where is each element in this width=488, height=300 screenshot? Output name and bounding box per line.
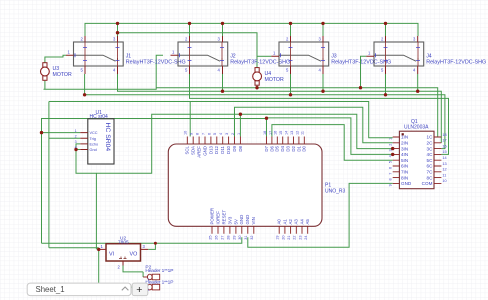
wire: J1 pin3 drop with branch to motor U4 top xyxy=(118,23,258,67)
svg-text:11: 11 xyxy=(442,173,446,177)
svg-text:RESET: RESET xyxy=(221,210,226,225)
svg-text:18: 18 xyxy=(442,133,446,137)
svg-text:IOREF: IOREF xyxy=(215,211,220,225)
svg-text:5: 5 xyxy=(389,161,393,163)
svg-text:5V: 5V xyxy=(233,219,238,224)
ultrasonic sensor U1 HC-SR04 xyxy=(80,110,114,164)
svg-text:28: 28 xyxy=(226,236,230,240)
svg-text:D13: D13 xyxy=(208,145,213,154)
node: rail J2p3 xyxy=(221,22,224,25)
node: B3 J4p5 xyxy=(384,93,387,96)
svg-text:D12: D12 xyxy=(214,145,219,154)
header P2 xyxy=(143,264,173,282)
svg-text:14: 14 xyxy=(285,131,289,135)
wire: Arduino D7 to ULN 4IN xyxy=(267,118,393,154)
svg-text:4: 4 xyxy=(75,146,77,150)
svg-text:27: 27 xyxy=(220,236,224,240)
svg-text:26: 26 xyxy=(214,236,218,240)
svg-text:1: 1 xyxy=(75,129,77,133)
svg-text:17: 17 xyxy=(442,139,446,143)
svg-text:Header 1**1P: Header 1**1P xyxy=(145,280,173,286)
svg-text:A0: A0 xyxy=(277,219,282,225)
svg-text:3: 3 xyxy=(75,140,77,144)
svg-text:A3: A3 xyxy=(294,219,299,225)
svg-text:32: 32 xyxy=(250,236,254,240)
node: J4 pin1 bus xyxy=(359,86,362,89)
svg-text:14: 14 xyxy=(442,156,446,160)
header P3 xyxy=(143,280,173,292)
svg-text:13: 13 xyxy=(290,131,294,135)
svg-text:15: 15 xyxy=(442,150,446,154)
wire: HC-SR04 VCC tap xyxy=(42,132,81,134)
svg-text:4: 4 xyxy=(219,133,223,135)
regulator U2 7805 xyxy=(99,236,149,270)
wire: J3 pin1 tap xyxy=(257,55,271,57)
svg-text:3IN: 3IN xyxy=(401,146,408,151)
svg-text:12: 12 xyxy=(442,168,446,172)
svg-text:12: 12 xyxy=(295,131,299,135)
Arduino top pin stubs xyxy=(187,137,304,145)
node: rail J4p2 xyxy=(384,22,387,25)
svg-text:D9: D9 xyxy=(232,145,237,151)
wire: 7805 pin2 to header P2 xyxy=(123,266,143,278)
svg-text:2C: 2C xyxy=(427,141,434,146)
svg-text:2: 2 xyxy=(389,144,393,146)
svg-text:Gnd: Gnd xyxy=(90,148,97,152)
svg-text:2: 2 xyxy=(231,133,235,135)
svg-text:AREF: AREF xyxy=(197,146,202,158)
motor U4 xyxy=(253,68,284,86)
svg-text:8IN: 8IN xyxy=(401,175,408,180)
svg-text:7: 7 xyxy=(389,173,393,175)
svg-text:30: 30 xyxy=(238,236,242,240)
node: B2 J4p4 xyxy=(416,90,419,93)
svg-text:21: 21 xyxy=(287,236,291,240)
svg-text:22: 22 xyxy=(293,236,297,240)
svg-text:6IN: 6IN xyxy=(401,164,408,169)
wire: J3 pin3 drop xyxy=(322,23,324,36)
node: rail J3p2 xyxy=(289,22,292,25)
node: B2 J3p4 xyxy=(321,90,324,93)
node: B2 J2p4 xyxy=(221,90,224,93)
wire: 5V rail from left riser to Arduino GND pin xyxy=(42,237,242,243)
node: D7 riser xyxy=(265,117,268,120)
wire: bus B4 J2 pin5 to ULN 4C xyxy=(190,74,449,154)
svg-text:A1: A1 xyxy=(282,219,287,225)
wire: left riser net joining D7 xyxy=(42,119,267,244)
Arduino top pin numbers xyxy=(184,131,305,135)
svg-text:D11: D11 xyxy=(220,145,225,153)
svg-text:13: 13 xyxy=(442,162,446,166)
svg-text:RelayHT3F-12VDC-SHG: RelayHT3F-12VDC-SHG xyxy=(230,60,290,66)
node: D8 riser xyxy=(239,113,242,116)
svg-text:8: 8 xyxy=(389,178,393,180)
svg-text:D6: D6 xyxy=(269,145,274,151)
svg-text:D5: D5 xyxy=(275,145,280,151)
svg-text:D3: D3 xyxy=(286,145,291,151)
svg-text:16: 16 xyxy=(274,131,278,135)
svg-text:UNO_R3: UNO_R3 xyxy=(325,189,346,195)
Arduino top pin names xyxy=(185,145,307,157)
node: VCC row xyxy=(40,131,43,134)
svg-text:D4: D4 xyxy=(280,145,285,151)
HC-SR04 pin numbers xyxy=(75,129,77,150)
motor U3 xyxy=(41,63,72,81)
svg-text:COM: COM xyxy=(422,181,433,186)
driver Q1 ULN2003A xyxy=(399,119,434,189)
wire: Arduino D9 to ULN 2IN xyxy=(235,107,393,143)
svg-text:10: 10 xyxy=(442,179,446,183)
svg-text:GND: GND xyxy=(401,181,412,186)
svg-text:2: 2 xyxy=(75,135,77,139)
svg-text:HC sr04: HC sr04 xyxy=(90,114,109,120)
svg-text:VO: VO xyxy=(130,252,138,258)
svg-text:4: 4 xyxy=(389,155,393,157)
wire: J4 pin2 drop xyxy=(385,23,387,36)
node: rail J3p3 xyxy=(321,22,324,25)
svg-text:11: 11 xyxy=(301,131,305,135)
relay J3 xyxy=(271,36,391,74)
svg-text:Sheet_1: Sheet_1 xyxy=(36,285,65,294)
svg-text:VCC: VCC xyxy=(90,131,98,135)
wire: J3 pin2 drop xyxy=(290,23,292,36)
svg-text:1: 1 xyxy=(237,133,241,135)
wire: Arduino GND2 to ULN GND xyxy=(248,183,393,247)
relay J1 xyxy=(66,36,186,74)
svg-text:A2: A2 xyxy=(288,219,293,225)
wire: Trig line to ULN 1IN with SCL branch and 7805 VI leg xyxy=(49,102,393,248)
relay J4 xyxy=(366,36,486,74)
node: rail J1p3 xyxy=(116,22,119,25)
wire: Arduino D6 to ULN 5IN xyxy=(272,125,393,161)
svg-text:6C: 6C xyxy=(427,164,434,169)
svg-text:25: 25 xyxy=(208,236,212,240)
svg-text:D7: D7 xyxy=(264,145,269,151)
ULN2003A pin stubs xyxy=(393,137,442,183)
svg-text:POWER: POWER xyxy=(209,208,214,225)
Arduino bottom pin numbers xyxy=(208,236,308,240)
svg-text:6: 6 xyxy=(207,133,211,135)
svg-text:D1: D1 xyxy=(296,145,301,151)
svg-text:5: 5 xyxy=(213,133,217,135)
node: rail J2p2 xyxy=(188,22,191,25)
ULN2003A pin names xyxy=(401,135,433,186)
svg-text:1IN: 1IN xyxy=(401,135,408,140)
Arduino bottom pin stubs xyxy=(212,226,308,234)
svg-text:17: 17 xyxy=(268,131,272,135)
svg-text:5C: 5C xyxy=(427,158,434,163)
sheet tab bar xyxy=(27,283,148,296)
wire: 7805 VO up to 5V rail xyxy=(148,243,155,249)
svg-text:D10: D10 xyxy=(226,145,231,154)
node: B3 J3p5 xyxy=(289,93,292,96)
svg-text:4IN: 4IN xyxy=(401,152,408,157)
svg-text:GND: GND xyxy=(202,146,207,156)
svg-text:8C: 8C xyxy=(427,175,434,180)
svg-text:D8: D8 xyxy=(238,145,243,151)
wire: HC-SR04 Echo via D8 riser to ULN 3IN xyxy=(76,114,393,249)
svg-text:7: 7 xyxy=(201,133,205,135)
svg-text:4C: 4C xyxy=(427,152,434,157)
node: HC-SR04 Gnd xyxy=(74,148,77,151)
svg-text:10: 10 xyxy=(184,131,188,135)
svg-text:GND: GND xyxy=(245,215,250,225)
svg-text:15: 15 xyxy=(279,131,283,135)
svg-text:19: 19 xyxy=(276,236,280,240)
node: J1p3 branch xyxy=(116,31,119,34)
svg-text:Header 1**1P: Header 1**1P xyxy=(145,268,173,274)
svg-text:3C: 3C xyxy=(427,146,434,151)
node: 7805 VI xyxy=(97,248,100,251)
wire: J2 pin3 drop xyxy=(222,23,224,36)
svg-text:MOTOR: MOTOR xyxy=(265,77,284,83)
Arduino bottom pin names xyxy=(209,208,310,225)
svg-text:A5: A5 xyxy=(305,219,310,225)
svg-text:+: + xyxy=(136,284,142,296)
svg-text:9: 9 xyxy=(190,133,194,135)
wire: J2 pin2 drop xyxy=(189,23,191,36)
svg-text:RelayHT3F-12VDC-SHG: RelayHT3F-12VDC-SHG xyxy=(331,60,391,66)
svg-text:16: 16 xyxy=(442,144,446,148)
wire: bus B3 relay pin5 bus to ULN 3C xyxy=(85,74,445,149)
Arduino P1 UNO_R3 xyxy=(168,144,345,226)
svg-text:18: 18 xyxy=(263,131,267,135)
node: motor U4 bottom xyxy=(255,86,258,89)
svg-text:VI: VI xyxy=(109,252,114,258)
wire: motor U3 top to J1 pin1 xyxy=(45,55,66,63)
svg-text:RelayHT3F-12VDC-SHG: RelayHT3F-12VDC-SHG xyxy=(426,60,486,66)
relay J2 xyxy=(171,36,291,74)
svg-text:7IN: 7IN xyxy=(401,170,408,175)
svg-text:6: 6 xyxy=(389,167,393,169)
wire: bus B2 relay pin4 bus to ULN 2C xyxy=(118,74,442,143)
svg-text:9: 9 xyxy=(389,184,393,186)
wire: motor U3 bottom to J2 pin1 xyxy=(44,55,164,89)
wire: bus B1 motor U4 bottom / J4 pin1 xyxy=(156,56,441,137)
svg-text:3: 3 xyxy=(389,149,393,151)
node: 5V rail VO xyxy=(154,242,157,245)
svg-text:1C: 1C xyxy=(427,135,434,140)
svg-text:20: 20 xyxy=(281,236,285,240)
svg-text:MOTOR: MOTOR xyxy=(53,72,72,78)
svg-text:HC SR04: HC SR04 xyxy=(104,123,111,152)
svg-text:2IN: 2IN xyxy=(401,141,408,146)
svg-text:SDA: SDA xyxy=(191,146,196,155)
svg-text:D0: D0 xyxy=(302,145,307,151)
wire: top supply rail xyxy=(85,23,418,36)
svg-text:24: 24 xyxy=(304,236,308,240)
svg-text:ULN2003A: ULN2003A xyxy=(404,125,429,131)
svg-text:VIN: VIN xyxy=(251,217,256,224)
wire: 7805 VI branch to header P3 xyxy=(99,249,143,287)
node: ULN 3IN xyxy=(391,147,394,150)
svg-text:8: 8 xyxy=(196,133,200,135)
svg-text:RelayHT3F-12VDC-SHG: RelayHT3F-12VDC-SHG xyxy=(126,60,186,66)
svg-text:D2: D2 xyxy=(291,145,296,151)
svg-text:3V3: 3V3 xyxy=(227,216,232,224)
node: B3 J1p5 xyxy=(83,93,86,96)
svg-text:1: 1 xyxy=(389,138,393,140)
svg-text:7805: 7805 xyxy=(118,239,129,245)
ULN2003A pin numbers xyxy=(389,133,447,187)
svg-text:29: 29 xyxy=(232,236,236,240)
svg-text:GND: GND xyxy=(239,215,244,225)
svg-text:Trig: Trig xyxy=(90,137,96,141)
svg-text:3: 3 xyxy=(225,133,229,135)
node: ULN 4IN xyxy=(391,153,394,156)
svg-text:23: 23 xyxy=(298,236,302,240)
svg-text:5IN: 5IN xyxy=(401,158,408,163)
svg-text:31: 31 xyxy=(244,236,248,240)
svg-text:A4: A4 xyxy=(299,219,304,225)
svg-text:Echo: Echo xyxy=(90,143,99,147)
svg-text:7C: 7C xyxy=(427,170,434,175)
svg-text:SCL: SCL xyxy=(185,145,190,154)
